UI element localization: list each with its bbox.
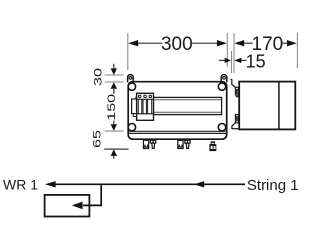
svg-text:15: 15 [246, 52, 266, 72]
svg-text:150: 150 [104, 94, 117, 121]
svg-text:String 1: String 1 [247, 177, 299, 194]
svg-text:300: 300 [161, 34, 193, 55]
svg-text:WR 1: WR 1 [3, 177, 38, 193]
svg-text:30: 30 [91, 68, 104, 86]
svg-text:65: 65 [90, 130, 103, 148]
